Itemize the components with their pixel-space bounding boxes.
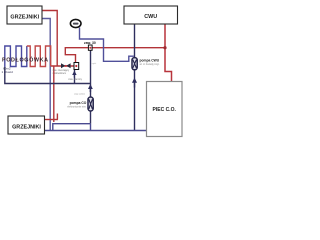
coil floor heating serpentine blue part <box>5 46 27 67</box>
svg-text:wł. cz.rkulacji progr.: wł. cz.rkulacji progr. <box>140 63 160 66</box>
svg-text:zaw. zwrotny: zaw. zwrotny <box>68 78 82 81</box>
svg-text:pompa CWU: pompa CWU <box>140 59 160 63</box>
svg-text:1 obwód: 1 obwód <box>2 70 14 74</box>
node junction supply/CWU <box>163 46 166 49</box>
pump pompa CWU <box>132 58 137 70</box>
wire red main supply horizontal <box>65 48 165 63</box>
svg-text:PODŁOGÓWKA: PODŁOGÓWKA <box>2 56 48 64</box>
svg-text:cyrk.: cyrk. <box>92 62 97 65</box>
wire red riser to CWU and boiler <box>165 24 172 82</box>
wire red mixed supply row <box>51 65 74 67</box>
svg-text:PIEC C.O.: PIEC C.O. <box>153 107 177 113</box>
svg-text:GRZEJNIKI: GRZEJNIKI <box>12 124 41 130</box>
svg-text:CWU: CWU <box>144 14 157 20</box>
svg-text:elektronicznie ster.: elektronicznie ster. <box>67 105 86 108</box>
check valve on CWU return <box>132 78 137 88</box>
svg-text:pompa CO: pompa CO <box>70 101 87 105</box>
wire red stub at bottom right of radiators branch <box>56 114 58 120</box>
svg-text:z siłownikiem: z siłownikiem <box>53 73 67 75</box>
check valve zaw. zwrotny 2 <box>88 84 93 92</box>
wire red supply from top radiators <box>42 11 57 67</box>
wire navy middle vertical from valve through CO pump <box>90 50 92 123</box>
wire blue bottom main return <box>45 130 147 132</box>
wire navy below mixer valve <box>74 70 76 84</box>
wire blue loop to bottom return <box>53 124 91 131</box>
box radiators bottom GRZEJNIKI <box>8 116 45 134</box>
pump pompa CO <box>88 97 93 111</box>
wire navy CWU vertical through pump <box>134 24 136 131</box>
valve zaw. 30 with label <box>88 45 92 50</box>
wire red bottom radiators horizontal <box>45 119 58 121</box>
check valve zaw. zwrotny 1 <box>72 71 76 78</box>
valve box second <box>74 63 79 70</box>
svg-text:zaw. 30: zaw. 30 <box>84 41 96 45</box>
box radiators top GRZEJNIKI <box>7 6 42 24</box>
svg-text:zaw. mieszający: zaw. mieszający <box>53 70 70 72</box>
wire blue return from top radiators <box>42 19 50 131</box>
box hot water tank CWU <box>124 6 178 24</box>
coil floor heating serpentine red part <box>27 46 51 67</box>
wire navy floor-heating return horizontal <box>5 67 91 84</box>
thermostat bulb symbol <box>70 19 81 27</box>
svg-text:GRZEJNIKI: GRZEJNIKI <box>10 14 39 20</box>
wire blue from thermostat <box>80 28 134 62</box>
box boiler PIEC C.O. <box>147 82 183 137</box>
svg-text:zaw. zwrot.: zaw. zwrot. <box>74 93 85 96</box>
wire red supply to bottom radiators <box>53 66 55 122</box>
mixing valve zaw. mieszajacy z silownikiem <box>61 63 65 68</box>
